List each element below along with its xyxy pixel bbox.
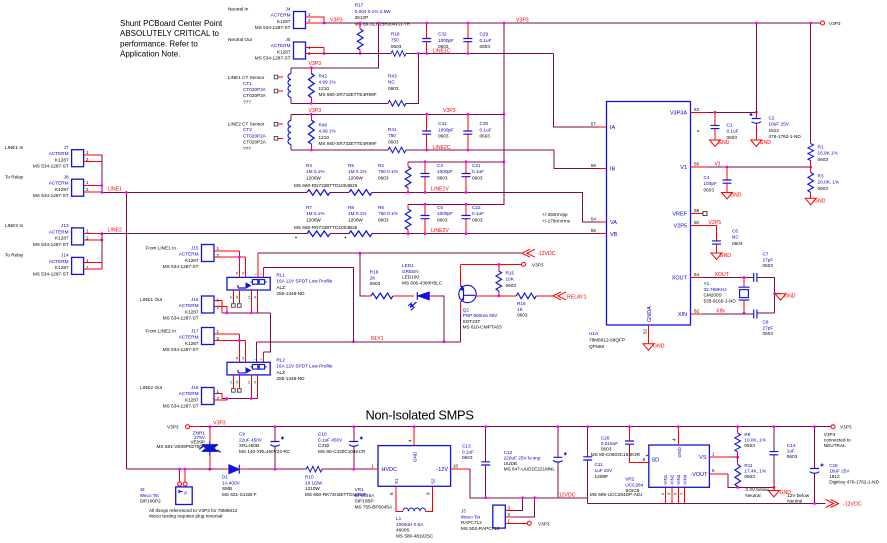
connector J18 (LINE2 Out) (140, 385, 219, 409)
wire CT1 top rail (291, 67, 379, 69)
svg-text:GND: GND (720, 253, 732, 259)
svg-text:J15: J15 (191, 246, 199, 251)
svg-text:J17: J17 (191, 329, 199, 334)
svg-text:LED100: LED100 (402, 275, 419, 280)
svg-text:GND: GND (760, 140, 772, 146)
svg-text:MS 140-XRL450V22-RC: MS 140-XRL450V22-RC (239, 449, 291, 454)
node V3P3 SMPS right (831, 425, 835, 429)
svg-text:20.0K, 1%: 20.0K, 1% (818, 180, 840, 185)
svg-text:GND: GND (413, 451, 418, 462)
pin 64 XOUT (691, 277, 704, 279)
svg-text:V3P3: V3P3 (516, 18, 529, 24)
svg-text:K1287: K1287 (185, 309, 199, 314)
svg-text:R42: R42 (319, 74, 328, 79)
svg-text:MS 580-48102SC: MS 580-48102SC (396, 533, 434, 538)
svg-text:MS 534-1287-ST: MS 534-1287-ST (163, 316, 199, 321)
wire J13/J14 bus (101, 234, 103, 269)
junction J4 pins (323, 22, 326, 25)
svg-text:-12VDC: -12VDC (843, 502, 862, 508)
svg-text:1M 0.1%: 1M 0.1% (306, 169, 325, 174)
svg-text:R10: R10 (305, 475, 314, 480)
svg-text:0603: 0603 (601, 447, 612, 452)
svg-text:1: 1 (86, 228, 89, 233)
svg-text:From LINE2 In: From LINE2 In (146, 329, 177, 334)
svg-text:0603: 0603 (480, 44, 491, 49)
CT1 pin square 1 (274, 75, 278, 79)
svg-text:XOUT: XOUT (672, 276, 688, 282)
wire J7 to LINE1 (101, 155, 103, 192)
svg-text:2: 2 (508, 512, 511, 517)
svg-text:K1287: K1287 (55, 265, 69, 270)
svg-text:64: 64 (694, 272, 700, 277)
svg-text:LINE2: LINE2 (108, 228, 123, 234)
svg-text:-12V: -12V (436, 467, 448, 473)
svg-text:ACTERM: ACTERM (49, 229, 69, 234)
svg-text:MS 534-1287-ST: MS 534-1287-ST (163, 347, 199, 352)
svg-text:2: 2 (259, 358, 263, 360)
wire -12V rail B (588, 503, 826, 505)
svg-text:6: 6 (673, 492, 678, 495)
svg-text:16A 12V SPDT Low Profile: 16A 12V SPDT Low Profile (276, 279, 332, 284)
svg-text:255-1448-ND: 255-1448-ND (276, 291, 305, 296)
svg-text:750 0.1%: 750 0.1% (378, 169, 398, 174)
wire Q2 emitter lead (460, 264, 462, 285)
svg-text:MS 621-S1GB-F: MS 621-S1GB-F (222, 492, 257, 497)
svg-text:R15: R15 (506, 271, 515, 276)
svg-text:4: 4 (408, 439, 413, 442)
svg-text:GND: GND (814, 198, 826, 204)
svg-text:6: 6 (389, 492, 394, 495)
junction J5 pins (323, 52, 326, 55)
svg-text:0603: 0603 (437, 217, 448, 222)
svg-text:R16: R16 (517, 301, 526, 306)
svg-text:1210W: 1210W (305, 486, 320, 491)
svg-text:MS 660-SR732ETTE4R99F: MS 660-SR732ETTE4R99F (319, 141, 377, 146)
resistor R11 (735, 457, 766, 487)
svg-text:NEUTRAL: NEUTRAL (824, 443, 846, 448)
svg-text:1uF 20V: 1uF 20V (595, 468, 614, 473)
svg-text:1K: 1K (517, 307, 524, 312)
svg-text:45: 45 (235, 271, 239, 275)
svg-text:K1287: K1287 (55, 157, 69, 162)
svg-text:ALZ: ALZ (276, 370, 285, 375)
junction R17 bottom (359, 52, 362, 55)
svg-text:MS 660-RN732BTTD1004B25: MS 660-RN732BTTD1004B25 (294, 225, 358, 230)
svg-text:Q2: Q2 (463, 308, 470, 313)
svg-text:1000pF: 1000pF (438, 127, 454, 132)
svg-text:C15: C15 (829, 463, 838, 468)
ground C2 (751, 140, 762, 147)
wire J2 pins (180, 469, 186, 482)
svg-text:J16: J16 (191, 297, 199, 302)
svg-text:C11: C11 (595, 462, 604, 467)
svg-text:14: 14 (247, 380, 251, 384)
svg-text:V2P5: V2P5 (674, 224, 687, 230)
wire C7 to gnd stub (757, 278, 781, 314)
svg-text:16A 12V SPDT Low Profile: 16A 12V SPDT Low Profile (276, 364, 332, 369)
capacitor C14 (769, 427, 797, 488)
pin 54 VA (599, 221, 607, 223)
svg-text:C21: C21 (472, 163, 481, 168)
svg-text:MS 534-1287-ST: MS 534-1287-ST (163, 264, 199, 269)
svg-text:Neutral: Neutral (745, 493, 760, 498)
ground GNDA (643, 344, 654, 351)
ground C6 (711, 253, 722, 260)
svg-text:GND: GND (718, 140, 730, 146)
svg-text:U1A: U1A (589, 331, 599, 336)
svg-text:N: N (183, 491, 188, 494)
svg-text:R5: R5 (348, 163, 354, 168)
svg-text:MS 534-1287-ST: MS 534-1287-ST (33, 271, 69, 276)
svg-text:ALZ: ALZ (276, 285, 285, 290)
svg-text:MS 534-1287-ST: MS 534-1287-ST (163, 404, 199, 409)
svg-text:1206W: 1206W (306, 175, 321, 180)
svg-text:1: 1 (217, 246, 220, 251)
capacitor C9 polarized (239, 427, 291, 470)
svg-text:VB: VB (610, 232, 618, 238)
svg-text:GND: GND (730, 193, 742, 199)
label U1A (589, 331, 625, 349)
svg-text:C32: C32 (438, 32, 447, 37)
svg-text:ACTERM: ACTERM (179, 391, 199, 396)
inductor CT2 coil (288, 114, 291, 150)
svg-text:4.99 1%: 4.99 1% (319, 129, 336, 134)
capacitor C8 (754, 310, 774, 337)
svg-text:J13: J13 (61, 223, 69, 228)
svg-text:Neutral In: Neutral In (228, 7, 249, 12)
svg-text:CT020P2A: CT020P2A (243, 140, 267, 145)
svg-text:J18: J18 (191, 385, 199, 390)
svg-text:1000uH 0.5A: 1000uH 0.5A (396, 522, 424, 527)
wire J13 pin2 (84, 239, 102, 241)
ground crystal (775, 294, 786, 301)
svg-text:16.9K 1%: 16.9K 1% (818, 151, 838, 156)
resistor R3 (808, 167, 839, 198)
svg-text:0.1uF: 0.1uF (480, 127, 492, 132)
svg-text:V3P3: V3P3 (538, 521, 550, 526)
svg-text:MS 534-1287-ST: MS 534-1287-ST (255, 25, 291, 30)
capacitor C30 (463, 114, 491, 150)
svg-text:1M 0.1%: 1M 0.1% (306, 211, 325, 216)
svg-text:C29: C29 (480, 32, 489, 37)
wire V3P3 to Q2 emitter (461, 263, 522, 265)
svg-text:J4: J4 (286, 7, 291, 12)
capacitor C10 polarized (318, 427, 366, 470)
svg-text:32.768KHz: 32.768KHz (704, 287, 728, 292)
capacitor C4 (704, 167, 732, 193)
svg-text:J7: J7 (64, 145, 69, 150)
svg-text:UUDB: UUDB (504, 461, 517, 466)
svg-text:SOT23T: SOT23T (463, 319, 481, 324)
svg-text:MS 534-1287-ST: MS 534-1287-ST (33, 164, 69, 169)
svg-text:HVDC: HVDC (382, 467, 398, 473)
svg-text:0603: 0603 (506, 283, 517, 288)
svg-text:10.0K, 1%: 10.0K, 1% (744, 438, 766, 443)
svg-text:LINE2V: LINE2V (431, 228, 449, 234)
pin 59 V1 (691, 166, 708, 168)
svg-text:K1287: K1287 (55, 187, 69, 192)
svg-text:CT020P2A: CT020P2A (243, 133, 267, 138)
connector J4 (Neutral In) (228, 7, 311, 31)
svg-text:LINE2C: LINE2C (433, 145, 451, 151)
svg-text:55: 55 (591, 228, 597, 233)
wire RL1 coil to RLY1 (263, 268, 353, 342)
svg-text:D1: D1 (222, 475, 228, 480)
svg-text:MS 755-BP5045A: MS 755-BP5045A (355, 504, 393, 509)
svg-text:connected to: connected to (824, 438, 851, 443)
svg-text:47: 47 (229, 380, 233, 384)
resistor R41 (388, 127, 406, 153)
pin 56 IB (599, 168, 607, 170)
resistor R16 (516, 293, 553, 318)
svg-text:0603: 0603 (438, 134, 449, 139)
svg-text:0.1uF: 0.1uF (727, 129, 739, 134)
end defs (697, 130, 699, 132)
svg-text:1uF: 1uF (787, 449, 795, 454)
svg-text:C22: C22 (472, 205, 481, 210)
connector J15 (From LINE1 In) (146, 245, 220, 270)
svg-text:VS: VS (699, 455, 707, 461)
svg-text:UCC284: UCC284 (625, 482, 643, 487)
svg-text:C13: C13 (462, 444, 471, 449)
wire LINE1C to IA pin (554, 54, 599, 128)
svg-text:27pF: 27pF (763, 257, 774, 262)
svg-text:62: 62 (694, 309, 700, 314)
svg-text:R43: R43 (388, 74, 397, 79)
capacitor C32 (422, 23, 454, 54)
svg-text:All things referenced to V3P3: All things referenced to V3P3 for 78M661… (149, 508, 238, 513)
svg-text:750: 750 (388, 133, 396, 138)
svg-text:Weco Tst: Weco Tst (461, 514, 481, 519)
pin labels RL2 tiny (229, 356, 263, 384)
annotation mV levels (542, 212, 571, 224)
pin 50 V2P5 (691, 226, 717, 238)
capacitor C29 (463, 23, 491, 54)
svg-text:DigiKey 478-1762-1-ND: DigiKey 478-1762-1-ND (829, 480, 879, 485)
svg-text:CT2: CT2 (243, 127, 252, 132)
wire J3 pin2 (505, 516, 514, 518)
svg-text:VA: VA (610, 220, 617, 226)
annotation V3P3 connected to NEUTRAL (824, 432, 851, 448)
svg-text:44: 44 (235, 380, 239, 384)
svg-text:C1: C1 (727, 123, 733, 128)
svg-text:GREEN: GREEN (402, 269, 419, 274)
svg-text:R40: R40 (319, 123, 328, 128)
svg-text:J3: J3 (461, 509, 466, 514)
svg-text:58: 58 (694, 208, 700, 213)
svg-text:7: 7 (679, 492, 684, 495)
svg-text:45: 45 (235, 356, 239, 360)
nc square RL2 a (232, 389, 236, 393)
svg-text:R3: R3 (818, 174, 824, 179)
off-page -12VDC (522, 249, 535, 257)
svg-text:NC: NC (732, 235, 739, 240)
svg-text:0603: 0603 (370, 281, 381, 286)
wire J3 pin1 (505, 522, 527, 524)
svg-text:performance. Refer to: performance. Refer to (120, 39, 198, 48)
svg-text:2: 2 (660, 492, 665, 495)
svg-text:0603: 0603 (480, 134, 491, 139)
svg-text:-VIN4: -VIN4 (682, 474, 687, 486)
svg-text:From LINE1 In: From LINE1 In (146, 246, 177, 251)
svg-text:V3P3: V3P3 (532, 262, 544, 267)
svg-text:1: 1 (86, 150, 89, 155)
nc square RL1 a (232, 304, 236, 308)
svg-text:GND: GND (677, 446, 682, 457)
resistor R42 (309, 68, 377, 104)
svg-text:V3P3: V3P3 (824, 432, 836, 437)
svg-text:0.004 0.1% 2.5W: 0.004 0.1% 2.5W (355, 9, 392, 14)
svg-text:RL1: RL1 (276, 273, 285, 278)
svg-text:GND: GND (653, 344, 665, 350)
svg-text:-12VDC: -12VDC (557, 492, 576, 498)
CT sensor CT2 labels (228, 122, 267, 151)
capacitor C12 polarized (504, 427, 567, 498)
svg-text:535-9165-1-ND: 535-9165-1-ND (704, 298, 737, 303)
crystal Y1 (704, 278, 750, 314)
svg-text:MS 80-C0603C153K3R: MS 80-C0603C153K3R (591, 452, 641, 457)
pins S1 S2 stubs (396, 486, 432, 511)
wire V1 net (707, 166, 811, 168)
svg-text:R17: R17 (355, 3, 364, 8)
resistor R7 (306, 205, 325, 222)
wire V3P3 drop to R1 (810, 23, 812, 144)
svg-text:K1287: K1287 (55, 236, 69, 241)
wire -12V to rail A (470, 469, 588, 498)
svg-text:LED1: LED1 (402, 263, 414, 268)
svg-text:ABSOLUTELY CRITICAL to: ABSOLUTELY CRITICAL to (120, 29, 220, 38)
svg-text:0603: 0603 (462, 455, 473, 460)
svg-text:GND: GND (784, 294, 796, 300)
svg-text:C7: C7 (763, 252, 769, 257)
svg-text:50: 50 (694, 220, 700, 225)
wire LINE1V rail (102, 192, 599, 222)
svg-text:R18: R18 (391, 32, 400, 37)
diode D1 (222, 465, 257, 497)
wire CT1 bottom rail (291, 54, 419, 104)
svg-text:1206W: 1206W (348, 217, 363, 222)
svg-text:MS 534-1287-ST: MS 534-1287-ST (33, 193, 69, 198)
svg-text:1A 400V: 1A 400V (222, 480, 241, 485)
svg-text:LINE1V: LINE1V (431, 187, 449, 193)
wire J4 pin2 (V3P3) (306, 22, 325, 24)
svg-text:CT1: CT1 (243, 81, 252, 86)
svg-text:R4: R4 (306, 163, 312, 168)
svg-text:+/-250mVpp: +/-250mVpp (542, 212, 568, 217)
capacitor C31 (422, 114, 454, 150)
svg-text:3: 3 (508, 506, 511, 511)
pin 52 GNDA (648, 325, 650, 344)
svg-text:S1: S1 (394, 478, 399, 484)
wire J7 pins (84, 155, 102, 161)
capacitor C13 (462, 427, 490, 498)
svg-text:Neutral: Neutral (787, 499, 802, 504)
svg-text:Application Note.: Application Note. (120, 50, 180, 59)
svg-text:Weco Tst: Weco Tst (140, 493, 160, 498)
svg-text:V2P5: V2P5 (709, 220, 722, 226)
wire J14 pins (84, 263, 102, 270)
wire V3P3 top rail (324, 22, 820, 24)
svg-text:R11: R11 (744, 463, 753, 468)
wire LINE2V rail (102, 233, 599, 235)
pin 55 VB (599, 233, 607, 235)
svg-text:1000pF: 1000pF (437, 211, 453, 216)
resistor R2 (378, 162, 411, 193)
annotation 12V below neutral (787, 493, 810, 504)
wire J15 pins (214, 251, 245, 257)
svg-text:47: 47 (229, 295, 233, 299)
svg-text:Weco testing requires plug rev: Weco testing requires plug reversal (149, 514, 222, 519)
svg-text:12V below: 12V below (787, 493, 810, 498)
svg-text:-VIN2: -VIN2 (669, 474, 674, 486)
svg-text:0.1uF: 0.1uF (472, 169, 484, 174)
svg-text:1: 1 (86, 180, 89, 185)
svg-text:59: 59 (694, 162, 700, 167)
wire Q2 base to R16 (475, 295, 516, 297)
svg-text:C6: C6 (732, 229, 738, 234)
nc square RL1 b (238, 304, 242, 308)
pin 4 GND VR1 (413, 427, 415, 446)
svg-text:CM200S: CM200S (704, 293, 722, 298)
wire J8 pin1 (84, 185, 102, 187)
svg-text:C3: C3 (437, 163, 443, 168)
svg-text:R2: R2 (378, 163, 384, 168)
svg-text:Neutral Out: Neutral Out (228, 37, 253, 42)
wire RL2 pin stubs bottom (233, 375, 257, 399)
svg-text:LINE1: LINE1 (108, 186, 123, 192)
svg-text:C8: C8 (763, 320, 769, 325)
wire V3P3 drop to C2 (755, 23, 757, 112)
svg-text:-VOUT: -VOUT (690, 472, 708, 478)
wire SMPS feed drop (125, 192, 127, 469)
annotation 3.3V below neutral (745, 487, 769, 498)
resistor R5 (348, 163, 367, 180)
svg-text:-VIN1: -VIN1 (663, 474, 668, 486)
svg-text:0603: 0603 (763, 263, 774, 268)
transistor Q2 (459, 285, 502, 329)
svg-text:LINE2 In: LINE2 In (5, 223, 24, 228)
svg-text:SIP10BP: SIP10BP (355, 499, 374, 504)
svg-text:GNDA: GNDA (647, 306, 653, 322)
svg-text:0603: 0603 (818, 186, 829, 191)
svg-text:MS 66-ULR25R004FLFTR: MS 66-ULR25R004FLFTR (355, 21, 411, 26)
svg-text:54: 54 (591, 217, 597, 222)
pin 5 -VOUT wire (709, 473, 727, 475)
svg-text:VR1: VR1 (355, 487, 365, 492)
svg-text:R8: R8 (348, 205, 354, 210)
svg-text:LINE1C: LINE1C (433, 48, 451, 54)
svg-text:CT020P2A: CT020P2A (243, 93, 267, 98)
module VR1 BP5045A (355, 446, 451, 510)
pin 57 IA (599, 126, 607, 128)
regulator VR2 UCC284 (590, 445, 709, 497)
wire RL1 pin stubs top (239, 251, 245, 277)
wire LINE1C rail (324, 53, 554, 55)
svg-text:0.1uF 450V: 0.1uF 450V (318, 437, 343, 442)
resistor R1 (808, 144, 838, 167)
svg-text:0603: 0603 (744, 474, 755, 479)
svg-text:Shunt PCBoard Center Point: Shunt PCBoard Center Point (120, 19, 223, 28)
resistor R17 (355, 3, 411, 54)
svg-text:0603: 0603 (787, 454, 798, 459)
wire J8 pin2 (84, 191, 102, 193)
wire -12VDC rail (258, 252, 522, 254)
capacitor C6 (712, 229, 743, 254)
svg-text:17.4K, 1%: 17.4K, 1% (744, 469, 766, 474)
ground C1 (710, 140, 721, 147)
svg-text:42: 42 (253, 295, 257, 299)
svg-text:V3P3: V3P3 (309, 61, 322, 67)
